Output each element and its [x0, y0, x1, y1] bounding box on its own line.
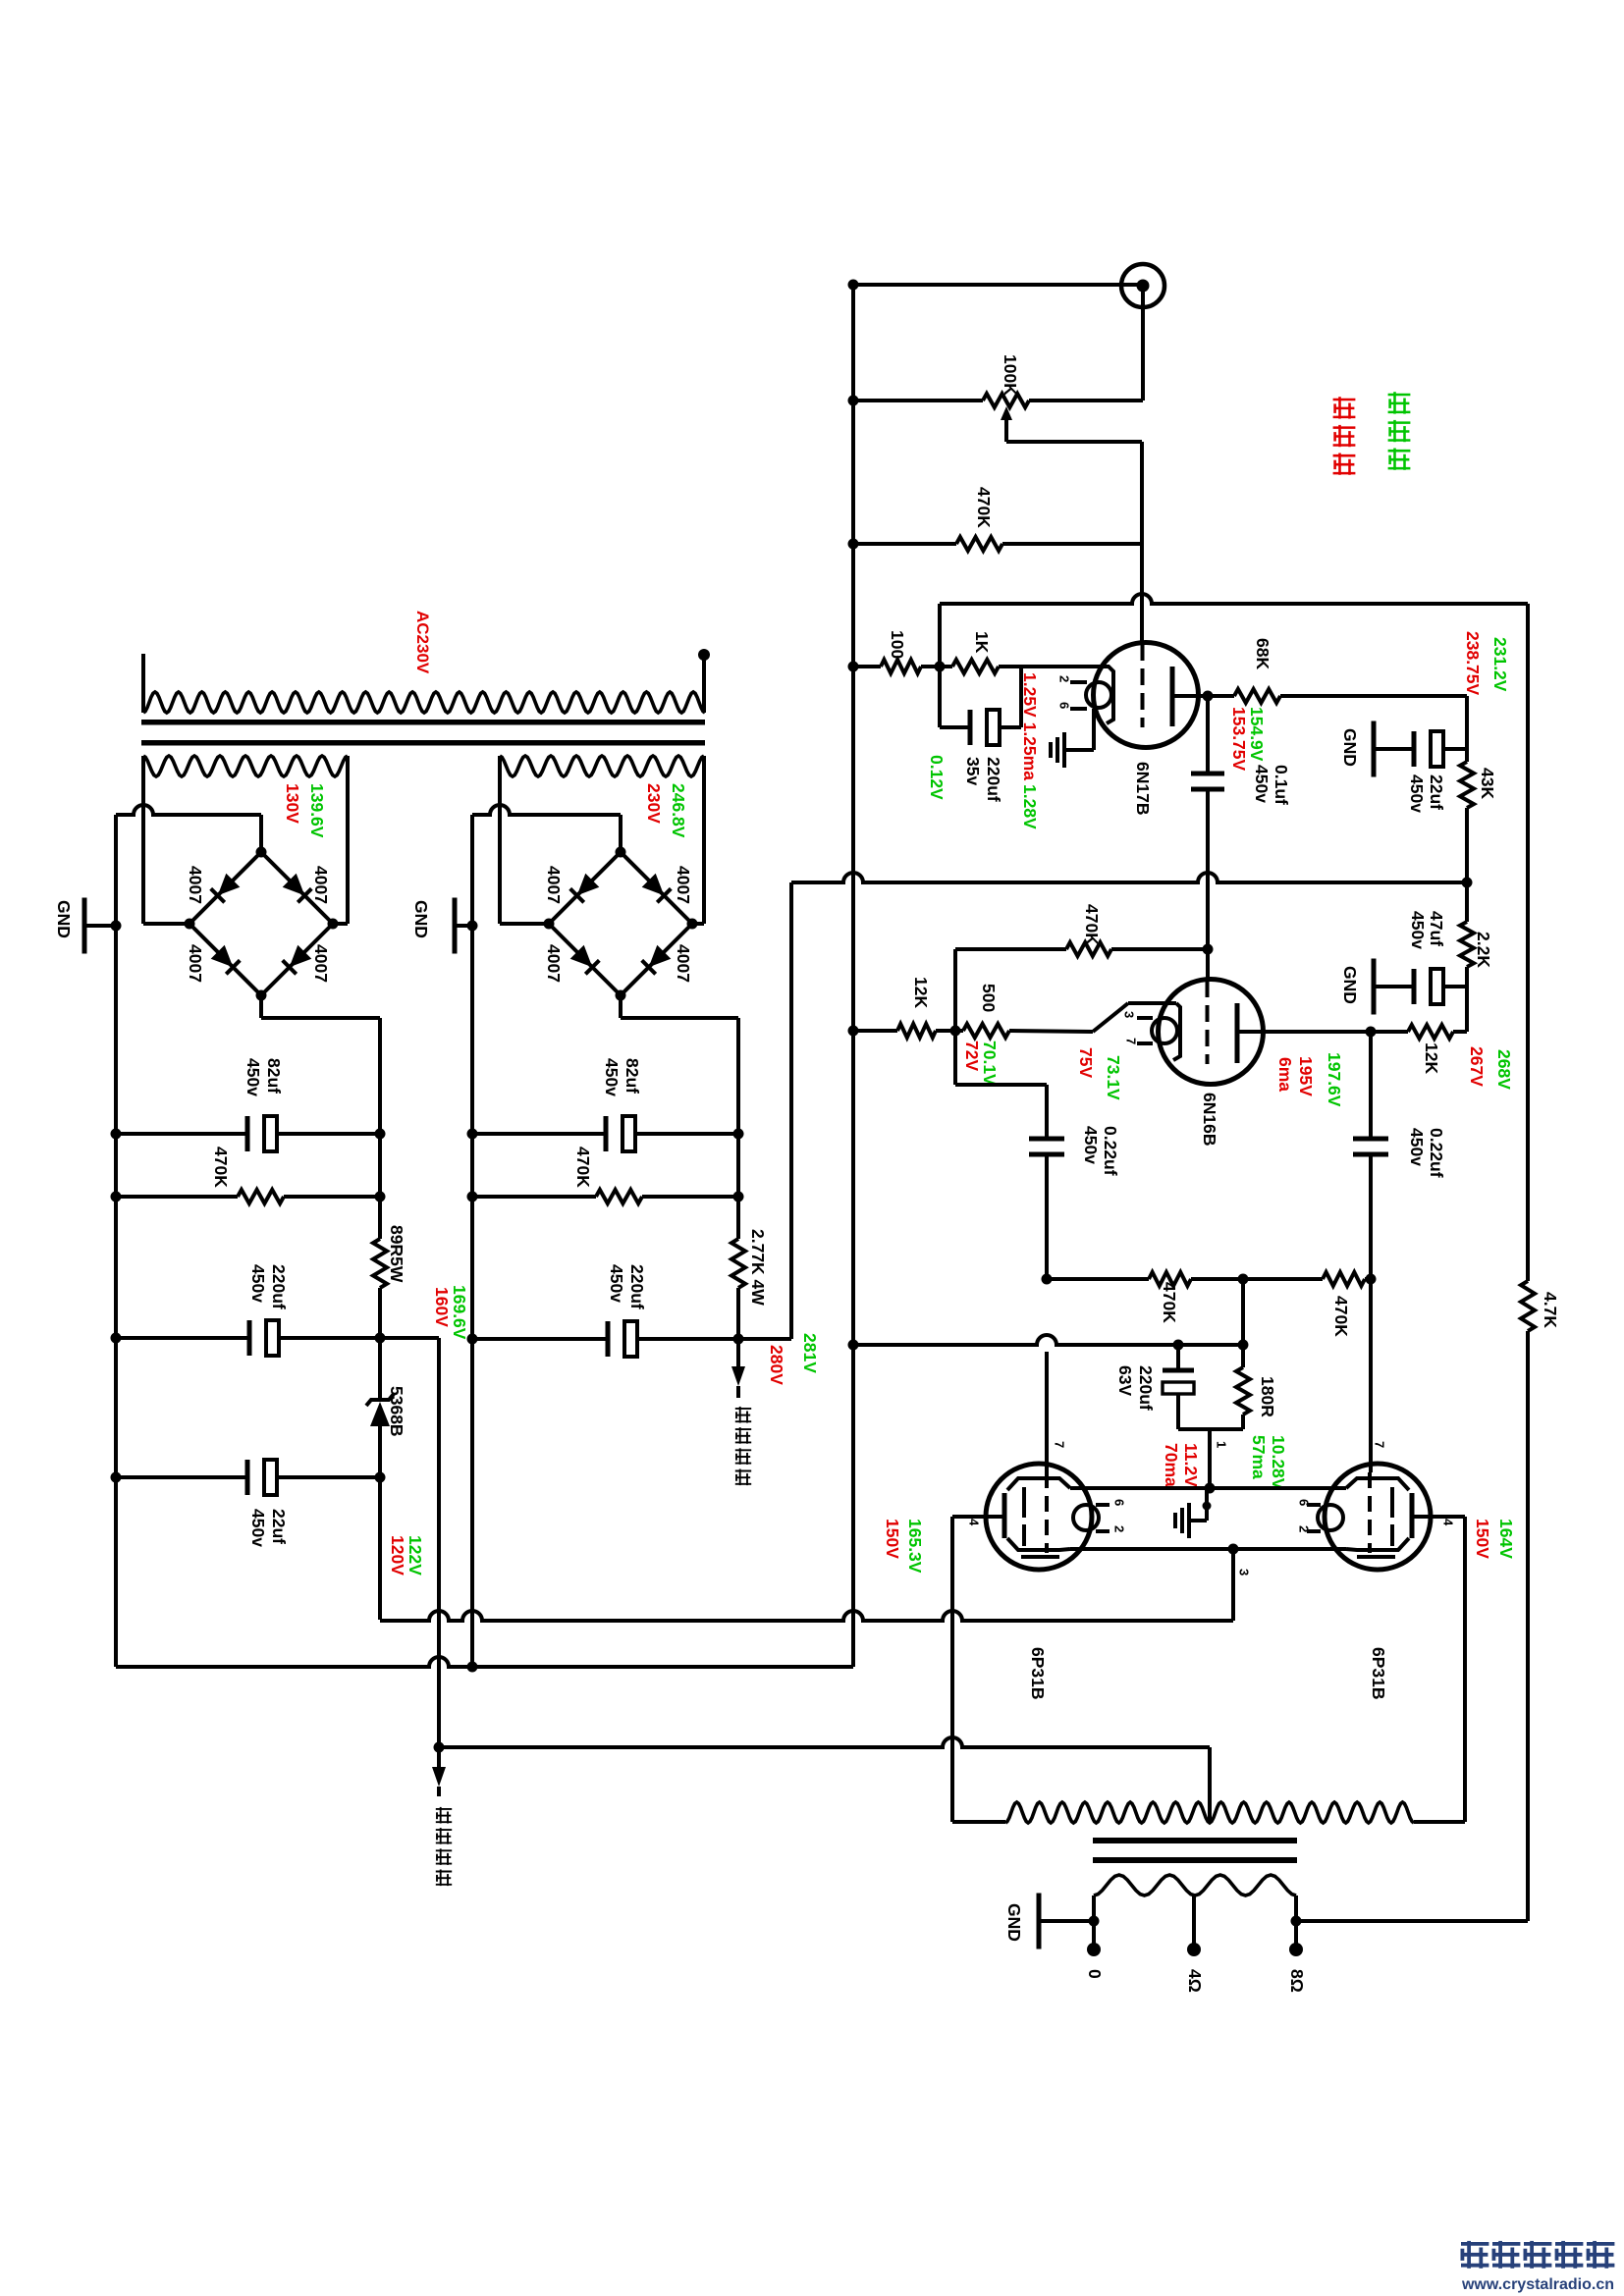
svg-text:2.77K 4W: 2.77K 4W: [748, 1229, 768, 1306]
label 130V: [283, 783, 302, 824]
svg-text:150V: 150V: [883, 1519, 902, 1559]
svg-text:GND: GND: [1004, 1903, 1024, 1942]
tube V2 heater circle: [1152, 1018, 1177, 1043]
svg-text:4007: 4007: [544, 944, 564, 983]
node A junction: [935, 662, 946, 672]
bridge rectifier D4 diagonal: [261, 924, 333, 995]
resistor 68K plate V1: [1208, 689, 1467, 703]
resistor 470K grid V2: [955, 942, 1208, 956]
svg-text:22uf: 22uf: [269, 1509, 289, 1544]
wire OPT 8ohm terminal: [1294, 1921, 1298, 1949]
arrow to other channel right PSU: [731, 1339, 745, 1398]
node OPT 0 terminal: [1087, 1943, 1101, 1956]
svg-text:220uf: 220uf: [269, 1264, 289, 1309]
svg-text:165.3V: 165.3V: [905, 1519, 925, 1574]
label pin 4 V4: [1440, 1519, 1455, 1526]
label 6P31B left: [1028, 1647, 1048, 1700]
svg-text:2.2K: 2.2K: [1474, 932, 1493, 968]
svg-text:10.28V: 10.28V: [1269, 1435, 1288, 1490]
label pin 4 V3: [966, 1519, 981, 1526]
label 5368B: [387, 1386, 406, 1437]
svg-text:0.22uf: 0.22uf: [1427, 1128, 1446, 1178]
label 0.22uf right: [1427, 1128, 1446, 1178]
node V2 plate: [1366, 1027, 1377, 1038]
svg-text:6N16B: 6N16B: [1200, 1093, 1219, 1146]
bridge rectifier D3 diagonal: [189, 924, 261, 995]
watermark crystalradio url: [1461, 2276, 1614, 2293]
svg-text:4007: 4007: [544, 866, 564, 904]
node input top left: [848, 280, 859, 291]
svg-text:122V: 122V: [406, 1535, 425, 1575]
node out grid right: [1366, 1274, 1377, 1285]
label GND 22uf: [1340, 728, 1360, 767]
svg-text:450v: 450v: [1407, 774, 1427, 813]
label 4007 D8: [674, 944, 693, 983]
capacitor 220uf 450v right row: [472, 1321, 738, 1357]
wire input top: [853, 283, 1143, 287]
wire OPT CT supply line: [439, 1737, 1210, 1822]
output transformer secondary winding: [1094, 1875, 1296, 1949]
node bridge1 right: [328, 919, 339, 930]
label 246.8V: [669, 783, 688, 838]
svg-text:450v: 450v: [607, 1264, 626, 1303]
ground GND PSU1 symbol: [84, 898, 116, 954]
power transformer T1 core: [141, 720, 705, 746]
ground V1 earth: [1051, 732, 1064, 768]
label 72V: [962, 1041, 982, 1071]
svg-text:6: 6: [1056, 702, 1071, 709]
tube V3 grid lead: [1045, 1352, 1049, 1472]
svg-text:153.75V: 153.75V: [1229, 707, 1249, 772]
resistor 100 NFB: [853, 660, 940, 673]
svg-text:130V: 130V: [283, 783, 302, 824]
bridge rectifier D1 diagonal: [189, 852, 261, 924]
tube V4 pin2 lead: [1307, 1529, 1321, 1533]
wire V2 grid lead: [1206, 949, 1210, 980]
node gnd stub: [1203, 1502, 1212, 1511]
svg-text:4007: 4007: [186, 944, 205, 983]
tube V1 cathode: [1097, 667, 1113, 723]
svg-text:470K: 470K: [1082, 904, 1102, 945]
label 238.75V: [1463, 631, 1483, 696]
wire V1 cathode ground lead: [1066, 709, 1094, 750]
wire right gnd bus: [470, 815, 474, 1667]
power transformer T1 primary winding: [143, 654, 705, 713]
label GND 47uf: [1340, 966, 1360, 1004]
svg-text:GND: GND: [411, 900, 431, 938]
svg-text:1.28V: 1.28V: [1020, 784, 1040, 829]
label 73.1V: [1104, 1055, 1123, 1100]
node 470K left a: [111, 1192, 122, 1202]
svg-text:6N17B: 6N17B: [1133, 762, 1153, 815]
label GND PSU1: [54, 900, 74, 938]
wire grid common drop: [1241, 1279, 1245, 1345]
wire sec1 right lead: [333, 769, 348, 924]
resistor 2.77K 4W: [731, 1239, 745, 1288]
label 220uf V1: [984, 757, 1003, 802]
arrow to other channel 160V: [432, 1747, 446, 1796]
node bridge2 left: [544, 919, 555, 930]
tube V3 screen: [1022, 1487, 1026, 1546]
capacitor 82uf 450v left row: [116, 1116, 380, 1151]
label 89R5W: [387, 1225, 406, 1283]
svg-text:3: 3: [1236, 1569, 1251, 1575]
tube V4 grid dashes: [1368, 1472, 1372, 1553]
wire sec2 left lead: [500, 769, 549, 924]
tube V4 beam plate bottom: [1346, 1538, 1409, 1557]
svg-text:75V: 75V: [1076, 1047, 1096, 1078]
svg-text:7: 7: [1372, 1441, 1386, 1448]
label 470K bleeder left: [211, 1147, 231, 1188]
wire node A riser: [938, 604, 942, 667]
node pot left: [848, 396, 859, 406]
tube V4 screen: [1390, 1487, 1394, 1546]
svg-text:0: 0: [1085, 1969, 1105, 1979]
diode D4 4007: [283, 945, 312, 975]
node out grid left: [1042, 1274, 1053, 1285]
node 82uf right b: [733, 1129, 744, 1140]
node 12K left: [848, 1026, 859, 1037]
node bridge1 left: [185, 919, 195, 930]
wire bridge2 DC+ out: [621, 995, 738, 1134]
wire screen supply line: [380, 1611, 1233, 1621]
tube V1 heater circle: [1086, 682, 1111, 708]
svg-text:139.6V: 139.6V: [307, 783, 327, 838]
svg-text:0.12V: 0.12V: [927, 755, 947, 800]
tube V2 6N16B envelope: [1159, 980, 1264, 1085]
node bridge2 right: [687, 919, 698, 930]
svg-text:68K: 68K: [1253, 638, 1272, 669]
svg-text:470K: 470K: [211, 1147, 231, 1188]
tube V3 pin6 lead: [1096, 1503, 1110, 1507]
tube V2 grid dashes: [1206, 981, 1210, 1064]
svg-text:72V: 72V: [962, 1041, 982, 1071]
wire cathode return line: [853, 1335, 1243, 1345]
label 450v 47uf: [1408, 911, 1428, 949]
node 22uf left b: [375, 1472, 386, 1483]
label pin 2 V4: [1296, 1525, 1311, 1532]
ground GND PSU2 symbol: [455, 898, 472, 954]
svg-text:2: 2: [1296, 1525, 1311, 1532]
label 450v 82uf right: [602, 1058, 622, 1096]
label 139.6V: [307, 783, 327, 838]
tube V4 heater circle: [1318, 1505, 1343, 1530]
node 470K right a: [467, 1192, 478, 1202]
wire bridge2 DC- top link: [472, 805, 621, 852]
label 0 terminal: [1085, 1969, 1105, 1979]
svg-text:4: 4: [1440, 1519, 1455, 1526]
svg-text:GND: GND: [54, 900, 74, 938]
label 122V: [406, 1535, 425, 1575]
svg-text:4: 4: [966, 1519, 981, 1526]
node B+ 43K: [1462, 878, 1473, 888]
node 470K left b: [375, 1192, 386, 1202]
resistor 470K grid leak V1: [853, 537, 1142, 551]
power transformer T1 secondary 130V winding: [143, 756, 348, 776]
label 68K: [1253, 638, 1272, 669]
node 12K/500: [950, 1026, 961, 1037]
svg-text:6: 6: [1296, 1499, 1311, 1506]
node 160V line tap: [434, 1742, 445, 1753]
svg-text:0.1uf: 0.1uf: [1272, 765, 1291, 805]
label 220uf right: [627, 1264, 647, 1309]
bridge rectifier D2 diagonal: [261, 852, 333, 924]
svg-text:4007: 4007: [311, 866, 331, 904]
node 470K V1 left: [848, 539, 859, 550]
diode D5 4007: [570, 874, 600, 903]
svg-text:7: 7: [1123, 1038, 1138, 1044]
node cathode return left: [848, 1340, 859, 1351]
tube V4 beam plate top: [1346, 1478, 1409, 1490]
wire follower out: [955, 1031, 1047, 1137]
tube V1 6N17B envelope: [1094, 643, 1199, 748]
resistor 2.2K: [1460, 922, 1474, 967]
label 82uf left: [264, 1058, 284, 1094]
node out grid common: [1238, 1274, 1249, 1285]
node V1 plate: [1203, 691, 1214, 702]
svg-text:2: 2: [1056, 675, 1071, 682]
label 1K: [972, 631, 992, 654]
svg-text:2: 2: [1111, 1525, 1126, 1532]
svg-text:470K: 470K: [974, 487, 994, 528]
label 470K out left: [1160, 1282, 1179, 1323]
capacitor 47uf 450v: [1414, 969, 1467, 1004]
svg-text:150V: 150V: [1473, 1519, 1492, 1559]
svg-text:450v: 450v: [248, 1509, 268, 1547]
label 450v 0.22uf left: [1081, 1126, 1101, 1164]
label 63V: [1115, 1365, 1135, 1396]
wire right B+ rail: [736, 1134, 740, 1339]
label 4007 D6: [674, 866, 693, 904]
wire out cathode line: [1070, 1486, 1346, 1490]
label 450v 220uf left: [248, 1264, 268, 1303]
wire V2 cathode diagonal: [1093, 1003, 1176, 1032]
ground GND 47uf: [1374, 959, 1412, 1015]
label pin 7 V4: [1372, 1441, 1386, 1448]
capacitor 0.22uf 450v left: [1029, 1139, 1064, 1279]
svg-text:450v: 450v: [1081, 1126, 1101, 1164]
label 8ohm terminal: [1287, 1969, 1307, 1993]
svg-text:70.1V: 70.1V: [980, 1041, 1000, 1086]
label 11.2V: [1181, 1443, 1201, 1487]
label other-channel right PSU: [735, 1407, 751, 1485]
label pin 1: [1214, 1441, 1228, 1448]
svg-text:12K: 12K: [911, 977, 931, 1008]
label pin 7 V3: [1052, 1441, 1066, 1448]
tube V3 heater circle: [1073, 1505, 1099, 1530]
wire V3 anode to OPT: [952, 1517, 1005, 1822]
svg-text:1: 1: [1214, 1441, 1228, 1448]
wire B+ col V1: [1465, 696, 1469, 882]
label pin 3 V2: [1121, 1011, 1136, 1018]
resistor 12K V2: [853, 1024, 955, 1038]
wire NFB top line: [940, 594, 1528, 1281]
svg-text:100: 100: [888, 630, 907, 659]
bridge rectifier D8 diagonal: [621, 924, 692, 995]
tube V2 pin7 lead: [1137, 1041, 1153, 1045]
node 220uf right a: [467, 1334, 478, 1345]
node screen line tap: [1228, 1544, 1239, 1555]
label pin 6 V1: [1056, 702, 1071, 709]
wire B+ col V2: [1465, 882, 1469, 1032]
resistor 470K out left: [1047, 1272, 1243, 1286]
label 10.28V: [1269, 1435, 1288, 1490]
label 220uf 63V: [1136, 1365, 1156, 1411]
output transformer primary winding: [1005, 1802, 1414, 1823]
label GND PSU2: [411, 900, 431, 938]
label 0.1uf: [1272, 765, 1291, 805]
wire OPT 0 terminal: [1092, 1921, 1096, 1949]
svg-text:268V: 268V: [1494, 1049, 1514, 1090]
svg-text:220uf: 220uf: [984, 757, 1003, 802]
svg-text:82uf: 82uf: [623, 1058, 642, 1094]
svg-text:154.9V: 154.9V: [1247, 707, 1267, 762]
svg-text:GND: GND: [1340, 966, 1360, 1004]
diode D7 4007: [570, 945, 600, 975]
label 220uf left: [269, 1264, 289, 1309]
svg-text:11.2V: 11.2V: [1181, 1443, 1201, 1487]
svg-text:70ma: 70ma: [1162, 1443, 1181, 1487]
svg-text:63V: 63V: [1115, 1365, 1135, 1396]
wire left B+ rail: [378, 1134, 382, 1620]
capacitor 22uf 450v left row: [116, 1460, 380, 1495]
watermark crystalradio logo: [1461, 2241, 1614, 2269]
legend design-value: [1333, 397, 1356, 475]
label 6N17B: [1133, 762, 1153, 815]
wire out cathode gnd stub: [1191, 1488, 1207, 1521]
resistor 470K out right: [1243, 1272, 1371, 1286]
wire jack to pot: [1141, 286, 1145, 400]
bridge rectifier D5 diagonal: [549, 852, 621, 924]
diode D8 4007: [642, 945, 672, 975]
resistor 12K plate V2: [1371, 1025, 1467, 1039]
svg-text:120V: 120V: [388, 1535, 407, 1575]
svg-text:238.75V: 238.75V: [1463, 631, 1483, 696]
node gnd return x481: [467, 1662, 478, 1673]
node 220uf left b: [375, 1333, 386, 1344]
wire cathode bottom: [1178, 1429, 1243, 1488]
label 197.6V: [1325, 1052, 1344, 1107]
capacitor 0.1uf 450v coupling: [1191, 696, 1224, 949]
svg-text:5368B: 5368B: [387, 1386, 406, 1437]
wire sec1 left lead: [141, 769, 145, 924]
label 43K: [1478, 768, 1497, 799]
svg-text:281V: 281V: [800, 1333, 820, 1373]
tube V3 beam plate top: [1007, 1478, 1070, 1490]
ground output earth: [1175, 1503, 1189, 1538]
ground GND OPT symbol: [1039, 1894, 1094, 1949]
svg-text:43K: 43K: [1478, 768, 1497, 799]
tube V3 anode: [952, 1493, 1004, 1538]
capacitor 82uf 450v right row: [472, 1116, 738, 1151]
label 4.7K: [1541, 1292, 1560, 1328]
node OPT 8ohm terminal: [1289, 1943, 1303, 1956]
node OPT 4ohm terminal: [1187, 1943, 1201, 1956]
node 82uf left b: [375, 1129, 386, 1140]
node bridge2 bottom: [616, 990, 626, 1001]
svg-text:www.crystalradio.cn: www.crystalradio.cn: [1461, 2276, 1614, 2293]
svg-text:180R: 180R: [1258, 1376, 1277, 1417]
tube V4 grid lead: [1369, 1279, 1373, 1472]
svg-text:4007: 4007: [674, 866, 693, 904]
node 82uf right a: [467, 1129, 478, 1140]
svg-text:470K: 470K: [573, 1147, 593, 1188]
capacitor 0.22uf 450v right: [1353, 1032, 1388, 1279]
node PSU1 gnd tap: [111, 921, 122, 932]
capacitor 22uf 450v V1: [1414, 731, 1467, 767]
tube V2 pin3 lead: [1137, 1016, 1153, 1020]
label 4007 D7: [544, 944, 564, 983]
tube V1 grid: [1140, 592, 1145, 727]
svg-text:0.22uf: 0.22uf: [1101, 1126, 1120, 1176]
label 150V out left: [883, 1519, 902, 1559]
label 280V: [767, 1345, 786, 1385]
label 6ma: [1275, 1057, 1295, 1092]
power transformer T1 secondary 230V winding: [500, 756, 704, 776]
label 47uf: [1427, 911, 1446, 946]
input jack J1: [1121, 264, 1164, 307]
label other-channel 160V: [436, 1807, 452, 1886]
resistor 4.7K NFB: [1521, 1281, 1535, 1921]
tube V2 plate: [1237, 1003, 1371, 1063]
legend measured-value: [1388, 392, 1411, 470]
label 154.9V: [1247, 707, 1267, 762]
label 450v 82uf left: [244, 1058, 263, 1096]
label 12K V2: [911, 977, 931, 1008]
svg-text:3: 3: [1121, 1011, 1136, 1018]
tube V4 anode: [1412, 1493, 1465, 1538]
label 70.1V: [980, 1041, 1000, 1086]
label 82uf right: [623, 1058, 642, 1094]
label pin 2 V1: [1056, 675, 1071, 682]
svg-text:35v: 35v: [963, 757, 983, 785]
resistor 180R: [1236, 1345, 1250, 1429]
diode D6 4007: [642, 874, 672, 903]
svg-text:470K: 470K: [1160, 1282, 1179, 1323]
node PSU2 gnd tap: [467, 921, 478, 932]
node 22uf left a: [111, 1472, 122, 1483]
svg-text:500: 500: [979, 984, 999, 1012]
svg-text:82uf: 82uf: [264, 1058, 284, 1094]
svg-text:89R5W: 89R5W: [387, 1225, 406, 1283]
label 231.2V: [1490, 637, 1510, 692]
tube V3 beam plate bottom: [1007, 1538, 1070, 1557]
tube V4 6P31B envelope: [1325, 1464, 1431, 1570]
svg-text:4007: 4007: [674, 944, 693, 983]
label 22uf V1: [1427, 774, 1446, 810]
svg-text:6P31B: 6P31B: [1028, 1647, 1048, 1700]
capacitor 220uf 450v left row: [116, 1320, 380, 1356]
label 6N16B: [1200, 1093, 1219, 1146]
svg-text:12K: 12K: [1422, 1042, 1441, 1074]
svg-text:6: 6: [1111, 1499, 1126, 1506]
svg-text:246.8V: 246.8V: [669, 783, 688, 838]
label 4007 D5: [544, 866, 564, 904]
svg-text:4Ω: 4Ω: [1185, 1969, 1205, 1993]
label 70ma: [1162, 1443, 1181, 1487]
svg-text:73.1V: 73.1V: [1104, 1055, 1123, 1100]
bridge rectifier D6 diagonal: [621, 852, 692, 924]
node cathode line center: [1205, 1483, 1216, 1494]
tube V1 pin6 lead: [1070, 707, 1087, 711]
svg-text:1.25V 1.25ma: 1.25V 1.25ma: [1020, 672, 1040, 780]
wire screen drop: [1231, 1549, 1235, 1621]
svg-text:7: 7: [1052, 1441, 1066, 1448]
svg-text:AC230V: AC230V: [413, 611, 432, 674]
label 4ohm terminal: [1185, 1969, 1205, 1993]
wire 160V tap: [380, 1338, 439, 1747]
label 22uf left: [269, 1509, 289, 1544]
